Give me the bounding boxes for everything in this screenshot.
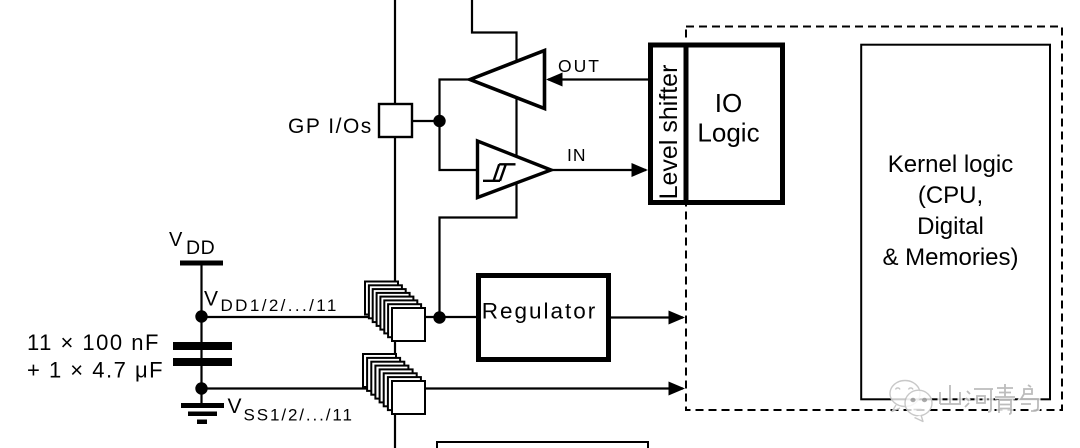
svg-text:V: V: [204, 288, 218, 311]
ground symbol: [181, 403, 224, 424]
wire: top step wire through buffers down to regulator input: [440, 0, 517, 318]
arrowhead regulator output (points right): [669, 311, 686, 325]
char 河: [965, 389, 993, 412]
node: junction regulator input: [433, 311, 445, 323]
wire: regulator output to kernel area: [611, 316, 683, 318]
node: junction VSS wire: [195, 382, 207, 394]
wire: OUT from level shifter to output buffer: [548, 78, 648, 80]
svg-text:IO: IO: [715, 88, 742, 118]
wire: IN from schmitt trigger to level shifter: [551, 169, 646, 171]
node: junction VDD rail to wire: [195, 310, 207, 322]
svg-text:Logic: Logic: [697, 118, 759, 148]
char 青: [995, 384, 1015, 414]
VDD pad stack (11 pads): [365, 282, 425, 342]
kernel logic box: [861, 45, 1050, 400]
svg-text:(CPU,: (CPU,: [918, 182, 983, 209]
capacitor bottom plate: [173, 358, 232, 366]
bottom partial box: [437, 442, 648, 448]
regulator box: [479, 276, 609, 360]
wire: GPIO pad to buffer output and schmitt input loop: [440, 80, 478, 171]
wire: VSS1/2/.../11 horizontal to kernel: [202, 387, 684, 389]
wire: main vertical IO pad bus: [394, 0, 396, 448]
svg-text:DD1/2/.../11: DD1/2/.../11: [221, 296, 339, 315]
svg-text:Regulator: Regulator: [482, 299, 598, 324]
arrowhead VSS into kernel area (points right): [669, 382, 686, 396]
svg-text:11 × 100 nF: 11 × 100 nF: [27, 330, 160, 355]
svg-text:V: V: [169, 229, 183, 251]
hysteresis symbol: [483, 164, 516, 181]
wire: VDD vertical from rail through capacitor to ground: [200, 264, 202, 403]
watermark: [890, 381, 1038, 422]
svg-text:Kernel logic: Kernel logic: [888, 151, 1013, 178]
output buffer triangle (points left): [470, 51, 545, 109]
svg-text:& Memories): & Memories): [882, 244, 1018, 271]
wire: GPIO pad stub: [412, 120, 440, 122]
IO logic box with level shifter strip: [651, 45, 783, 203]
char 鸟: [1021, 385, 1038, 411]
svg-text:Digital: Digital: [917, 213, 984, 240]
level shifter divider: [684, 43, 689, 206]
svg-text:V: V: [228, 395, 242, 418]
VSS pad stack (11 pads): [363, 354, 425, 414]
wire: VDD1/2/.../11 horizontal to regulator: [202, 316, 477, 318]
svg-text:+ 1 × 4.7 μF: + 1 × 4.7 μF: [27, 358, 164, 383]
capacitor C (11 x 100nF + 1 x 4.7uF) top plate: [173, 342, 232, 350]
arrowhead OUT (points left): [546, 73, 563, 87]
GPIO pad square: [379, 104, 412, 137]
svg-text:DD: DD: [186, 237, 215, 259]
svg-text:Level shifter: Level shifter: [655, 65, 683, 200]
svg-text:SS1/2/.../11: SS1/2/.../11: [244, 406, 354, 425]
VDD rail bar: [180, 261, 223, 266]
svg-text:GP I/Os: GP I/Os: [288, 115, 373, 138]
char 山: [940, 385, 961, 404]
dashed boundary box (chip boundary): [686, 27, 1062, 411]
svg-text:IN: IN: [567, 145, 587, 165]
arrowhead IN (points right): [632, 163, 649, 177]
schmitt trigger input buffer (points right): [478, 141, 552, 198]
node: junction at GPIO stub: [433, 115, 445, 127]
svg-text:OUT: OUT: [558, 56, 601, 76]
